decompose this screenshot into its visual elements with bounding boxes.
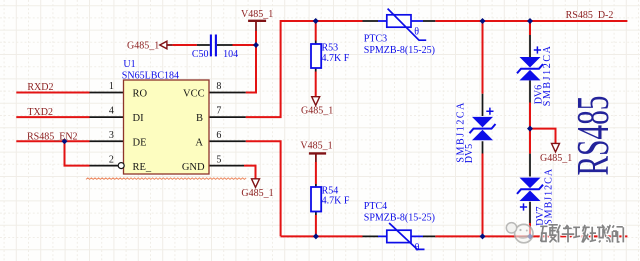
svg-text:SPMZB-8(15-25): SPMZB-8(15-25) — [364, 213, 435, 224]
svg-text:2: 2 — [109, 154, 114, 165]
svg-text:B: B — [196, 113, 203, 124]
svg-text:4: 4 — [109, 106, 114, 117]
svg-text:SMBJ12CA: SMBJ12CA — [544, 168, 555, 225]
svg-text:C50: C50 — [192, 49, 209, 60]
svg-text:8: 8 — [216, 81, 221, 92]
svg-text:VCC: VCC — [183, 89, 205, 100]
svg-text:RS485: RS485 — [567, 96, 618, 176]
svg-text:G485_1: G485_1 — [301, 106, 333, 117]
svg-text:PTC4: PTC4 — [364, 201, 387, 212]
svg-text:RS485 D-2: RS485 D-2 — [566, 10, 614, 21]
svg-text:GND: GND — [182, 162, 205, 173]
svg-text:RE_: RE_ — [133, 162, 152, 173]
svg-text:SN65LBC184: SN65LBC184 — [122, 71, 179, 82]
svg-text:SPMZB-8(15-25): SPMZB-8(15-25) — [364, 45, 435, 56]
svg-text:104: 104 — [223, 49, 238, 60]
svg-text:G485_1: G485_1 — [127, 40, 159, 51]
svg-text:DI: DI — [133, 113, 145, 124]
svg-text:TXD2: TXD2 — [27, 107, 53, 118]
svg-text:4.7K F: 4.7K F — [322, 196, 350, 207]
svg-text:4.7K F: 4.7K F — [322, 53, 350, 64]
svg-text:RXD2: RXD2 — [27, 82, 53, 93]
svg-text:U1: U1 — [123, 59, 135, 70]
svg-text:RS485_EN2: RS485_EN2 — [27, 131, 78, 142]
svg-text:PTC3: PTC3 — [364, 33, 387, 44]
svg-text:V485_1: V485_1 — [300, 141, 332, 152]
svg-text:V485_1: V485_1 — [241, 9, 273, 20]
svg-text:θ: θ — [415, 242, 420, 253]
svg-text:7: 7 — [216, 106, 221, 117]
svg-text:5: 5 — [216, 154, 221, 165]
svg-text:G485_1: G485_1 — [241, 188, 273, 199]
svg-text:DE: DE — [133, 138, 147, 149]
svg-text:θ: θ — [414, 26, 419, 37]
svg-text:A: A — [195, 138, 203, 149]
svg-text:3: 3 — [109, 130, 114, 141]
svg-text:6: 6 — [216, 130, 221, 141]
svg-text:RO: RO — [133, 89, 148, 100]
svg-text:1: 1 — [109, 81, 114, 92]
